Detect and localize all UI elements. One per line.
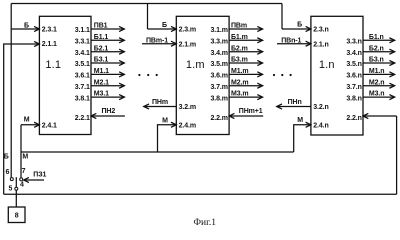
- svg-text:М1.1: М1.1: [94, 68, 109, 75]
- svg-text:3.3.1: 3.3.1: [75, 39, 90, 46]
- svg-text:3.1.m: 3.1.m: [210, 27, 227, 34]
- wire Б bus (top): [11, 3, 282, 5]
- svg-text:М2.m: М2.m: [231, 79, 249, 86]
- svg-text:4: 4: [20, 182, 24, 189]
- svg-text:1.n: 1.n: [319, 59, 335, 71]
- svg-text:3.4.1: 3.4.1: [75, 50, 90, 57]
- wire Б input of 1.n: [282, 22, 311, 30]
- svg-text:ПНm+1: ПНm+1: [239, 108, 263, 115]
- svg-text:2.1.n: 2.1.n: [313, 41, 328, 48]
- svg-text:Б3.1: Б3.1: [94, 57, 109, 64]
- svg-text:2.1.m: 2.1.m: [179, 41, 196, 48]
- wire Б drop to unit 1.n: [281, 4, 283, 30]
- ellipsis dots between 1.m and 1.n: [273, 74, 292, 76]
- svg-text:3.4.n: 3.4.n: [346, 50, 361, 57]
- wire output Б3.1 of 1.1: [91, 57, 124, 64]
- wire output Б2.1 of 1.1: [91, 45, 124, 52]
- svg-text:3.7.n: 3.7.n: [346, 84, 361, 91]
- svg-text:7: 7: [22, 168, 26, 175]
- svg-text:2.4.m: 2.4.m: [179, 122, 196, 129]
- svg-text:М: М: [24, 116, 30, 123]
- wire ПВn-1 input: [277, 37, 311, 44]
- svg-text:2.3.m: 2.3.m: [179, 27, 196, 34]
- svg-text:6: 6: [6, 169, 10, 176]
- wire 2.2.n input arrow: [363, 115, 397, 117]
- wire output Б3.m of 1.m: [229, 57, 263, 64]
- svg-text:3.2.n: 3.2.n: [313, 104, 328, 111]
- wire output Б3.n of 1.n: [363, 57, 395, 64]
- svg-text:5: 5: [9, 186, 13, 193]
- block unit 1.1: [39, 16, 91, 134]
- switch blade: [15, 177, 17, 187]
- wire output ПВm of 1.m: [229, 23, 263, 30]
- wire pole to unit 8: [15, 190, 17, 207]
- svg-text:М3.m: М3.m: [231, 91, 249, 98]
- wire М riser+input of 1.m: [158, 118, 177, 152]
- svg-text:М1.m: М1.m: [231, 68, 249, 75]
- svg-text:3.7.m: 3.7.m: [210, 84, 227, 91]
- wire ПВn feedback to 2.1.1 (left vertical): [4, 44, 40, 194]
- caption Фиг.1: [194, 218, 217, 228]
- svg-text:3.6.n: 3.6.n: [346, 73, 361, 80]
- block unit 1.n: [311, 16, 363, 135]
- wire bottom feedback (to 2.2.n): [4, 116, 397, 194]
- ellipsis dots between 1.1 and 1.m: [138, 74, 158, 76]
- svg-text:3.5.n: 3.5.n: [346, 61, 361, 68]
- wire Б input of 1.1: [11, 23, 39, 30]
- pin labels of unit 1.n: [313, 27, 362, 130]
- wire output Б1.1 of 1.1: [91, 34, 124, 41]
- svg-text:ПЗ1: ПЗ1: [33, 172, 46, 179]
- wire output М1.1 of 1.1: [91, 68, 124, 75]
- pin labels of unit 1.1: [42, 27, 90, 130]
- block unit 1.m: [176, 16, 229, 134]
- svg-text:М: М: [297, 117, 303, 124]
- wire output М2.1 of 1.1: [91, 79, 124, 86]
- wire output Б2.n of 1.n: [363, 45, 395, 52]
- wire output М1.m of 1.m: [229, 68, 263, 75]
- svg-text:2.2.m: 2.2.m: [210, 115, 227, 122]
- wire output М3.1 of 1.1: [91, 91, 124, 98]
- wire ПНm+1 input to 2.2.m: [229, 108, 263, 116]
- svg-text:3.6.1: 3.6.1: [75, 73, 90, 80]
- wire М riser+input of 1.n: [294, 117, 311, 152]
- wire М vertical (to contact 7): [20, 125, 22, 178]
- wire ПНm output of 3.2.m: [144, 99, 177, 106]
- wire output Б2.m of 1.m: [229, 45, 263, 52]
- svg-text:М2.n: М2.n: [369, 79, 385, 86]
- svg-text:3.4.m: 3.4.m: [210, 50, 227, 57]
- wire output М3.n of 1.n: [363, 91, 395, 98]
- svg-text:3.2.m: 3.2.m: [179, 104, 196, 111]
- wire output Б1.m of 1.m: [229, 34, 263, 41]
- wire output М2.n of 1.n: [363, 79, 395, 86]
- svg-text:ПН2: ПН2: [102, 108, 116, 115]
- svg-text:2.3.n: 2.3.n: [313, 27, 328, 34]
- svg-text:1.1: 1.1: [45, 59, 61, 71]
- wire ПВm-1 input: [142, 37, 176, 44]
- svg-text:2.1.1: 2.1.1: [42, 41, 57, 48]
- svg-text:Б1.1: Б1.1: [94, 34, 109, 41]
- svg-text:Б1.m: Б1.m: [231, 34, 248, 41]
- svg-text:3.3.m: 3.3.m: [210, 39, 227, 46]
- svg-text:ПНm: ПНm: [152, 99, 168, 106]
- svg-text:Б2.1: Б2.1: [94, 45, 109, 52]
- svg-text:М: М: [22, 154, 28, 161]
- svg-text:Б2.m: Б2.m: [231, 45, 248, 52]
- svg-text:1.m: 1.m: [186, 59, 205, 71]
- label Б (bus, bottom left): [4, 154, 9, 161]
- wire output М2.m of 1.m: [229, 79, 263, 86]
- svg-text:3.8.n: 3.8.n: [346, 95, 361, 102]
- wire Б vertical (left, to contact 6): [10, 4, 12, 178]
- svg-text:ПВm: ПВm: [231, 23, 247, 30]
- wire Б drop to unit 1.m: [147, 4, 149, 30]
- svg-text:3.3.n: 3.3.n: [346, 39, 361, 46]
- svg-text:М3.n: М3.n: [369, 91, 385, 98]
- wire output ПВ1 of 1.1: [91, 23, 124, 30]
- wire output М3.m of 1.m: [229, 91, 263, 98]
- svg-text:2.4.n: 2.4.n: [313, 122, 328, 129]
- label М (bus, bottom left): [22, 154, 28, 161]
- svg-text:Б: Б: [24, 23, 29, 30]
- wire output М1.n of 1.n: [363, 68, 395, 75]
- contact 7: [20, 168, 26, 181]
- svg-text:8: 8: [15, 213, 19, 220]
- svg-text:Б3.n: Б3.n: [369, 57, 384, 64]
- svg-text:Б: Б: [4, 154, 9, 161]
- svg-text:Б1.n: Б1.n: [369, 34, 384, 41]
- wire Б input of 1.m: [148, 22, 177, 29]
- svg-text:Б3.m: Б3.m: [231, 57, 248, 64]
- svg-text:2.4.1: 2.4.1: [42, 122, 57, 129]
- svg-text:3.8.m: 3.8.m: [210, 95, 227, 102]
- wire output Б1.n of 1.n: [363, 34, 395, 41]
- svg-text:ПВn-1: ПВn-1: [281, 37, 301, 44]
- svg-text:Б: Б: [162, 22, 167, 29]
- wire М input of 1.1: [21, 116, 39, 125]
- svg-text:ПВ1: ПВ1: [94, 23, 108, 30]
- svg-text:М: М: [162, 118, 168, 125]
- svg-text:М1.n: М1.n: [369, 68, 385, 75]
- svg-text:3.1.1: 3.1.1: [75, 27, 90, 34]
- svg-text:М3.1: М3.1: [94, 91, 109, 98]
- svg-text:3.8.1: 3.8.1: [75, 95, 90, 102]
- arrow ПЗ1: [24, 172, 47, 181]
- svg-text:ПНn: ПНn: [288, 99, 302, 106]
- svg-text:3.5.1: 3.5.1: [75, 61, 90, 68]
- svg-text:М2.1: М2.1: [94, 79, 109, 86]
- wire ПНn output of 3.2.n: [277, 99, 311, 106]
- svg-text:2.2.n: 2.2.n: [346, 115, 361, 122]
- svg-text:2.2.1: 2.2.1: [75, 115, 90, 122]
- switch pole contact: [9, 182, 25, 193]
- contact 6: [6, 169, 14, 181]
- svg-text:3.7.1: 3.7.1: [75, 84, 90, 91]
- pin labels of unit 1.m: [179, 27, 228, 130]
- svg-text:ПВm-1: ПВm-1: [146, 37, 168, 44]
- svg-text:3.6.m: 3.6.m: [210, 73, 227, 80]
- svg-text:2.3.1: 2.3.1: [42, 27, 57, 34]
- block unit 8: [8, 207, 25, 223]
- svg-text:Фиг.1: Фиг.1: [194, 218, 217, 227]
- wire М bus (bottom): [21, 151, 294, 153]
- svg-text:Б2.n: Б2.n: [369, 45, 384, 52]
- svg-text:3.5.m: 3.5.m: [210, 61, 227, 68]
- wire ПН2 input to 2.2.1: [91, 108, 125, 116]
- svg-text:Б: Б: [297, 22, 302, 29]
